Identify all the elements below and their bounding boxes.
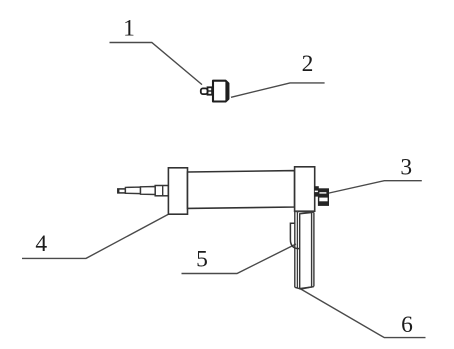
fitting stem (part 3): [315, 187, 319, 197]
tip end dark bar: [117, 189, 119, 193]
shaft collar: [155, 186, 168, 196]
fitting stem notch: [315, 191, 319, 193]
shaft section B: [141, 187, 156, 195]
plate second line: [296, 212, 298, 289]
svg-text:2: 2: [302, 51, 314, 77]
leader line 5: [182, 244, 297, 274]
clamp bracket (part 5): [290, 223, 299, 248]
sensor box (part 2): [213, 81, 228, 102]
leader line 3: [323, 181, 422, 195]
nipple mid line: [208, 90, 213, 92]
nozzle tip end cap: [118, 189, 126, 193]
fitting top dark block: [319, 189, 329, 198]
fitting stripe: [319, 192, 326, 193]
left flange of cylinder: [168, 168, 187, 214]
leader line 1: [110, 43, 203, 85]
leader line 2: [231, 83, 325, 97]
right flange of cylinder: [295, 167, 315, 211]
fitting bottom dark block: [319, 201, 329, 205]
plate right edge: [313, 212, 315, 286]
shaft section A (part 4 nozzle): [125, 187, 140, 194]
svg-text:4: 4: [35, 231, 47, 257]
svg-text:3: 3: [400, 155, 412, 181]
cylinder body: [188, 171, 295, 209]
sensor box dark side face: [225, 81, 228, 102]
svg-text:5: 5: [196, 247, 208, 273]
leader line 4: [22, 214, 168, 258]
grease nipple inner step (part 1): [208, 87, 213, 94]
svg-text:1: 1: [123, 15, 135, 41]
fitting body outline: [319, 189, 329, 205]
plate bottom edge: [295, 287, 314, 289]
leader line 6: [299, 288, 426, 338]
plate top edge: [295, 211, 314, 214]
mounting plate (part 6) left strip: [294, 212, 296, 288]
collar divider line: [162, 186, 164, 196]
svg-text:6: 6: [401, 312, 413, 338]
plate front face: [300, 213, 312, 289]
grease nipple outer step: [201, 88, 208, 94]
